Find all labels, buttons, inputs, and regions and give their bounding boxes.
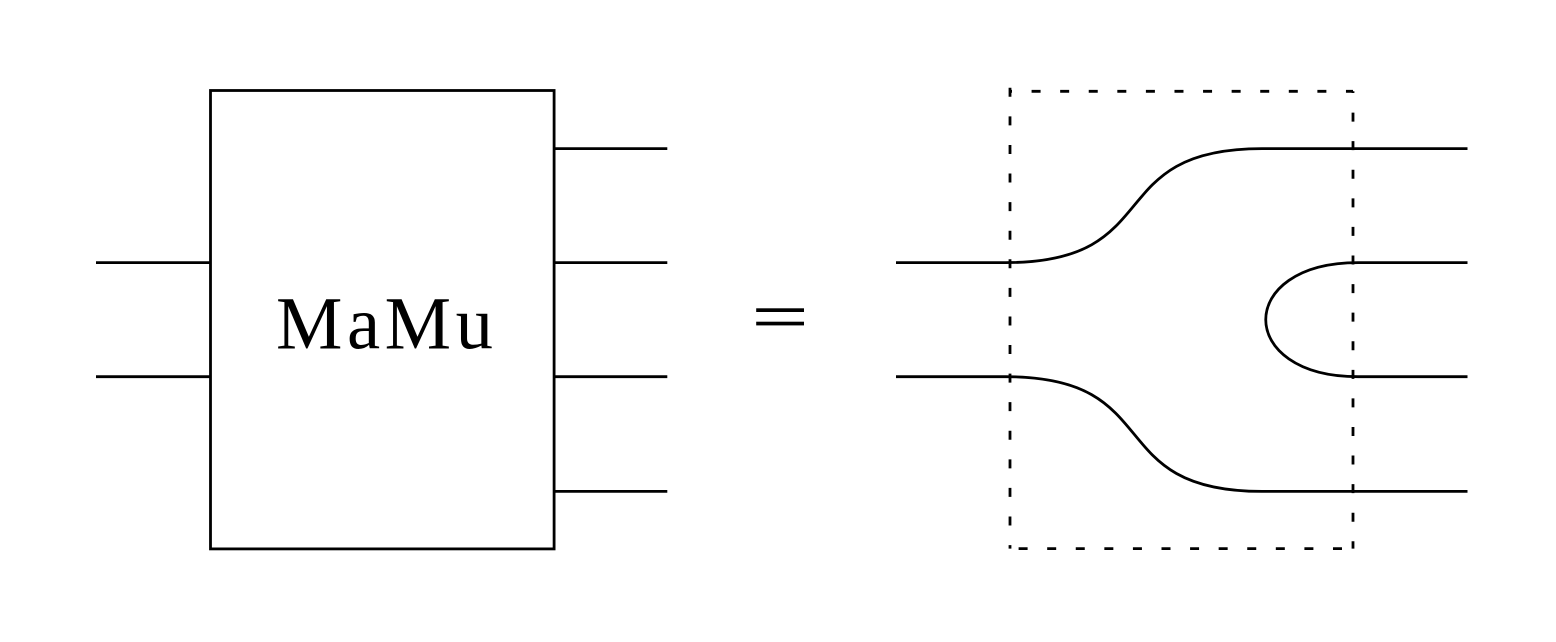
cup connecting output 2 and output 3 bbox=[1266, 263, 1468, 377]
wire left input 2 of MaMu box bbox=[96, 375, 211, 378]
equals sign bbox=[756, 308, 804, 325]
wire top: input 1 curving up to output 1 bbox=[896, 149, 1468, 263]
dashed box right edge bbox=[1352, 91, 1355, 548]
dashed box left edge bbox=[1009, 88, 1012, 549]
wire right output 1 of MaMu box bbox=[554, 147, 667, 150]
dashed box bottom edge bbox=[1010, 547, 1353, 550]
wire right output 3 of MaMu box bbox=[554, 375, 667, 378]
box MaMu bbox=[211, 91, 555, 549]
wire left input 1 of MaMu box bbox=[96, 261, 211, 264]
dashed box top edge bbox=[1010, 90, 1353, 93]
svg-text:MaMu: MaMu bbox=[276, 283, 493, 366]
wire bottom: input 2 curving down to output 4 bbox=[896, 377, 1468, 492]
wire right output 2 of MaMu box bbox=[554, 261, 667, 264]
wire right output 4 of MaMu box bbox=[554, 490, 667, 493]
